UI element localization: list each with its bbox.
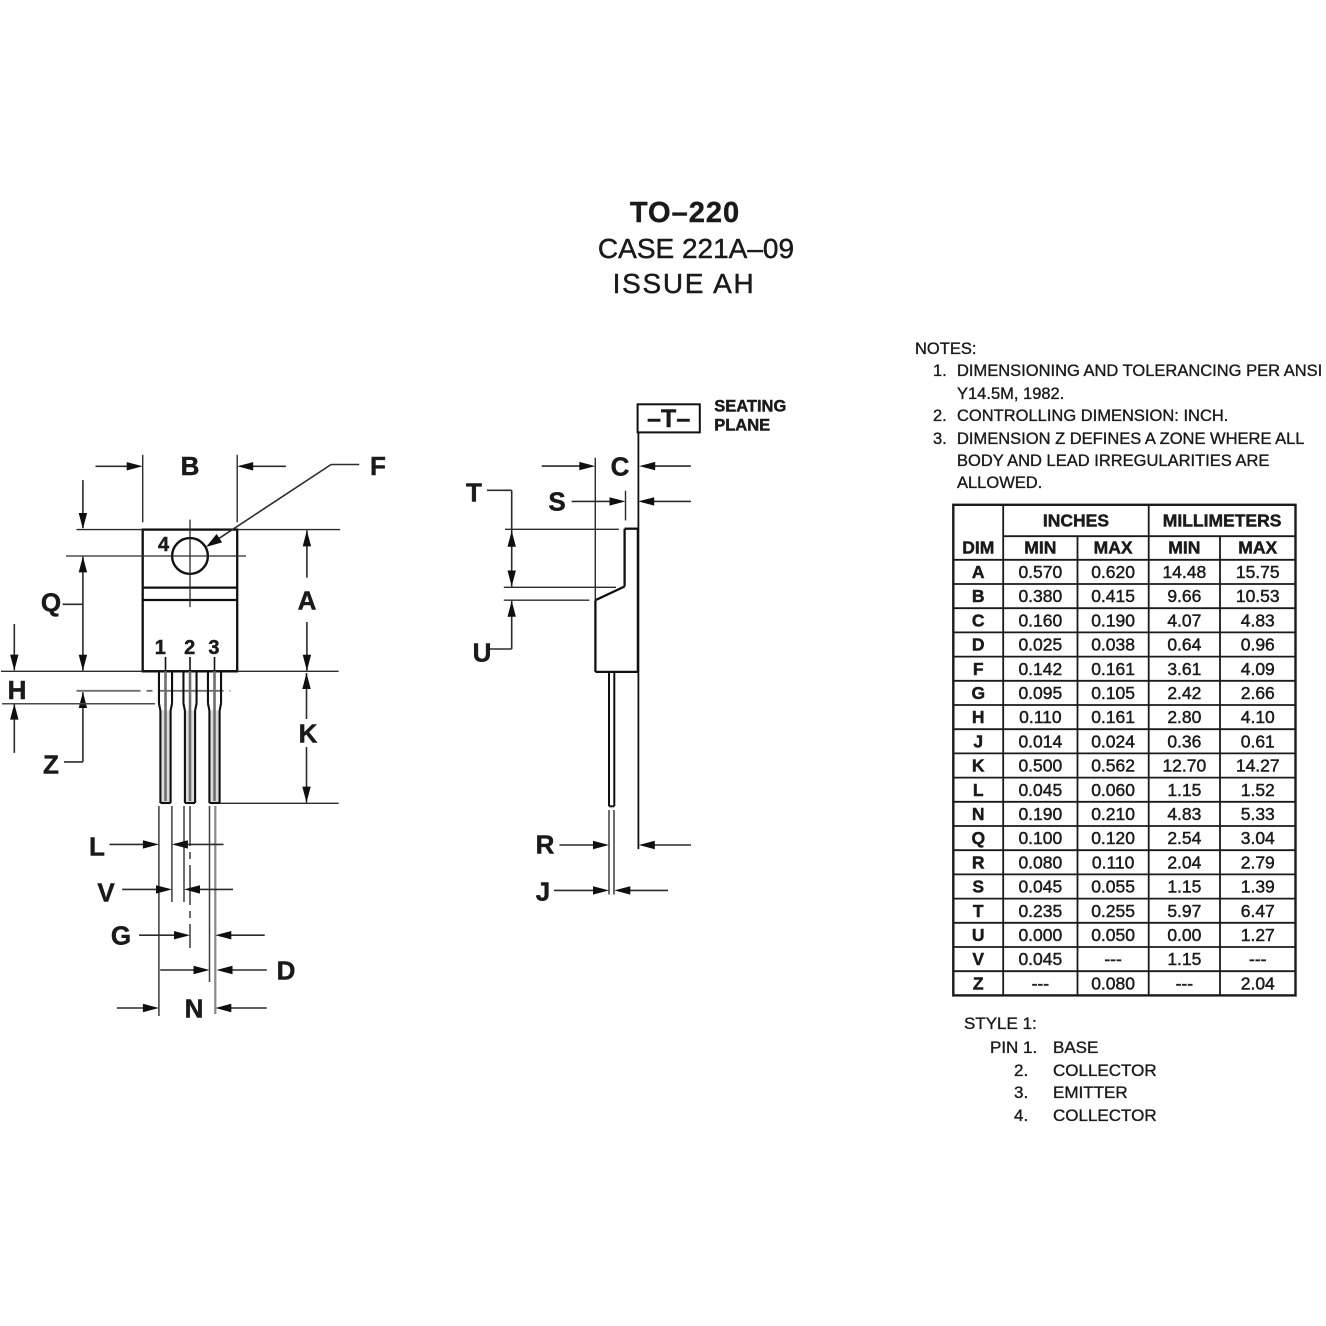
svg-text:4.09: 4.09 — [1241, 659, 1275, 679]
pin 2 stub — [189, 657, 191, 671]
dim F arrowhead — [206, 534, 222, 547]
svg-text:G: G — [971, 683, 985, 703]
svg-text:14.48: 14.48 — [1162, 562, 1206, 582]
dim S arrow line left — [572, 500, 611, 502]
svg-text:A: A — [972, 562, 985, 582]
dim K arrowhead down — [302, 787, 310, 803]
dim B arrowhead right — [237, 462, 253, 470]
side lead right edge — [613, 672, 615, 806]
chamfer bottom reference line — [504, 599, 590, 601]
lead 2 wide section left edge — [182, 671, 184, 703]
dim S arrowhead right — [638, 497, 654, 505]
dim S arrowhead left — [610, 497, 626, 505]
svg-text:3: 3 — [208, 637, 219, 659]
dim R arrowhead left — [593, 841, 609, 849]
svg-text:N: N — [185, 994, 204, 1024]
dim C arrowhead left — [579, 462, 595, 470]
svg-text:5.33: 5.33 — [1241, 804, 1275, 824]
svg-text:S: S — [972, 877, 984, 897]
dim K arrowhead up — [302, 673, 310, 689]
dim Z arrowhead — [79, 692, 87, 708]
svg-text:C: C — [611, 452, 630, 482]
svg-text:2.79: 2.79 — [1241, 852, 1275, 872]
svg-text:1.15: 1.15 — [1167, 949, 1201, 969]
svg-text:0.620: 0.620 — [1091, 562, 1135, 582]
svg-text:K: K — [972, 756, 985, 776]
svg-text:2.42: 2.42 — [1167, 683, 1201, 703]
svg-text:L: L — [89, 832, 105, 862]
dim S extension line — [625, 491, 627, 521]
svg-text:4.07: 4.07 — [1167, 610, 1201, 630]
svg-text:6.47: 6.47 — [1241, 901, 1275, 921]
svg-text:CASE 221A–09: CASE 221A–09 — [598, 233, 794, 264]
lead 1 bottom — [160, 802, 170, 804]
dim T connector — [487, 489, 512, 491]
svg-text:H: H — [972, 707, 985, 727]
svg-text:F: F — [973, 659, 984, 679]
side lead left edge — [608, 672, 610, 806]
extension line pin3 left edge — [209, 806, 211, 982]
svg-text:10.53: 10.53 — [1236, 586, 1280, 606]
hole center line horizontal — [66, 555, 246, 557]
svg-text:S: S — [548, 487, 565, 517]
dim H upper arrowhead — [10, 655, 18, 671]
svg-text:0.36: 0.36 — [1167, 731, 1201, 751]
extension line pin1 left edge — [158, 806, 160, 1016]
dim G arrowhead right — [215, 931, 231, 939]
dim H upper arrow line — [13, 624, 15, 670]
dim G arrowhead left — [174, 931, 190, 939]
dim Q lower line — [82, 557, 84, 671]
svg-text:0.96: 0.96 — [1241, 635, 1275, 655]
pin 1 stub — [165, 657, 167, 671]
dim L arrow line left — [110, 843, 146, 845]
svg-text:0.235: 0.235 — [1018, 901, 1062, 921]
dim Q arrowhead down at body bottom — [79, 655, 87, 671]
lead 3 bottom — [209, 802, 219, 804]
side body front upper edge — [623, 529, 625, 587]
svg-text:12.70: 12.70 — [1162, 756, 1206, 776]
svg-text:0.160: 0.160 — [1018, 610, 1062, 630]
dim C extension line — [594, 458, 596, 600]
svg-text:0.161: 0.161 — [1091, 707, 1135, 727]
dim J arrowhead right — [614, 886, 630, 894]
svg-text:2.80: 2.80 — [1167, 707, 1201, 727]
dim F leader diagonal — [209, 465, 332, 546]
side body top reference line — [505, 528, 619, 530]
svg-text:2.04: 2.04 — [1167, 852, 1201, 872]
extension line pin1 right edge — [171, 806, 173, 902]
lead taper reference line — [2, 703, 155, 705]
dim U connector — [489, 648, 512, 650]
side body front lower edge — [594, 600, 596, 672]
svg-text:2.66: 2.66 — [1241, 683, 1275, 703]
svg-text:DIM: DIM — [962, 538, 994, 558]
svg-text:SEATING: SEATING — [714, 398, 786, 416]
side body chamfer — [595, 587, 624, 601]
svg-text:0.110: 0.110 — [1019, 707, 1062, 727]
svg-text:---: --- — [1249, 949, 1267, 969]
svg-text:4: 4 — [158, 534, 170, 556]
svg-text:D: D — [972, 635, 985, 655]
dim Z arrow line — [82, 692, 84, 762]
dim N arrow line left — [117, 1007, 144, 1009]
svg-text:Q: Q — [971, 828, 985, 848]
dim D arrow line left — [160, 969, 195, 971]
svg-text:0.080: 0.080 — [1018, 852, 1062, 872]
svg-text:INCHES: INCHES — [1043, 511, 1109, 531]
dim Q upper arrow line — [82, 480, 84, 528]
lead 3 wide section right edge — [220, 671, 222, 703]
svg-text:MAX: MAX — [1238, 538, 1277, 558]
dim B arrow line left — [96, 465, 130, 467]
lead 1 narrow section edges — [159, 711, 161, 804]
extension line pin2 center dash-dot — [189, 806, 191, 948]
svg-text:0.00: 0.00 — [1167, 925, 1201, 945]
svg-text:MIN: MIN — [1168, 538, 1200, 558]
svg-text:1.52: 1.52 — [1241, 780, 1275, 800]
dim T arrowhead down — [508, 571, 516, 587]
dim A arrow line lower — [306, 622, 308, 671]
dim U arrow line — [511, 601, 513, 649]
dim V arrow line left — [122, 888, 158, 890]
svg-text:U: U — [473, 638, 492, 668]
dim R arrowhead right — [639, 841, 655, 849]
svg-text:PLANE: PLANE — [714, 417, 770, 435]
front view tab line lower — [143, 599, 238, 601]
lead 1 center line — [164, 671, 167, 801]
svg-text:0.210: 0.210 — [1091, 804, 1135, 824]
side body bottom edge — [595, 671, 638, 673]
lead 2 taper — [183, 704, 184, 711]
svg-text:D: D — [277, 956, 296, 986]
lead 3 wide section left edge — [207, 671, 209, 703]
svg-text:0.110: 0.110 — [1092, 852, 1135, 872]
svg-text:5.97: 5.97 — [1167, 901, 1201, 921]
svg-text:1: 1 — [155, 637, 166, 659]
svg-text:T: T — [973, 901, 984, 921]
svg-text:Z: Z — [973, 973, 984, 993]
svg-text:0.038: 0.038 — [1091, 635, 1135, 655]
svg-text:TO–220: TO–220 — [630, 197, 740, 229]
svg-text:K: K — [299, 719, 318, 749]
dim A arrowhead up — [303, 530, 311, 546]
dim H lower arrowhead — [10, 704, 18, 720]
dim B extension line right — [236, 455, 238, 523]
body top extension left — [77, 529, 143, 531]
zone boundary dash-dot line — [77, 690, 231, 692]
lead 3 center line — [213, 671, 216, 801]
dim R arrow line left — [559, 844, 595, 846]
style 1 pin listing — [964, 1013, 1037, 1036]
svg-text:9.66: 9.66 — [1167, 586, 1201, 606]
front view tab line upper — [143, 586, 238, 588]
side body tab top edge — [625, 528, 638, 530]
svg-text:0.060: 0.060 — [1091, 780, 1135, 800]
dim D arrowhead right — [217, 966, 233, 974]
dim V arrowhead right — [184, 885, 200, 893]
svg-text:B: B — [181, 451, 200, 481]
seating plane vertical line — [637, 433, 639, 849]
svg-text:B: B — [972, 586, 985, 606]
dim S arrow line right — [652, 500, 691, 502]
svg-text:0.045: 0.045 — [1018, 780, 1062, 800]
dim T arrow line — [511, 490, 513, 586]
svg-text:3.04: 3.04 — [1241, 828, 1275, 848]
dim N arrowhead left — [143, 1004, 159, 1012]
dim V arrowhead left — [156, 885, 172, 893]
dim D arrow line right — [230, 969, 267, 971]
dim V arrow line right — [197, 888, 233, 890]
dim B arrowhead left — [127, 462, 143, 470]
lead 1 wide section left edge — [158, 671, 160, 703]
lead 1 wide section right edge — [171, 671, 173, 703]
svg-text:MAX: MAX — [1094, 538, 1133, 558]
svg-text:F: F — [370, 451, 386, 481]
lead 3 taper — [208, 704, 209, 711]
dim Z connector — [64, 761, 83, 763]
svg-text:0.255: 0.255 — [1091, 901, 1135, 921]
svg-text:–T–: –T– — [647, 405, 690, 433]
dim J arrowhead left — [593, 886, 609, 894]
svg-text:2.54: 2.54 — [1167, 828, 1201, 848]
svg-text:0.190: 0.190 — [1091, 610, 1135, 630]
side lead bottom — [609, 805, 614, 807]
dim R arrow line right — [652, 844, 691, 846]
svg-text:1.15: 1.15 — [1167, 780, 1201, 800]
side body right edge — [637, 529, 639, 672]
lead 1 taper — [159, 704, 160, 711]
svg-text:0.025: 0.025 — [1018, 635, 1062, 655]
svg-text:0.500: 0.500 — [1018, 756, 1062, 776]
lead 2 bottom — [185, 802, 195, 804]
svg-text:0.080: 0.080 — [1091, 973, 1135, 993]
svg-text:0.380: 0.380 — [1018, 586, 1062, 606]
dim F leader horizontal — [331, 464, 359, 466]
dim D arrowhead left — [194, 966, 210, 974]
svg-text:J: J — [973, 731, 983, 751]
dim A arrowhead down — [303, 655, 311, 671]
dim B extension line left — [142, 455, 144, 523]
svg-text:---: --- — [1032, 973, 1050, 993]
svg-text:0.64: 0.64 — [1167, 635, 1201, 655]
svg-text:U: U — [972, 925, 985, 945]
svg-text:A: A — [298, 586, 317, 616]
svg-text:4.83: 4.83 — [1241, 610, 1275, 630]
dim T arrowhead up — [508, 531, 516, 547]
dim C arrow line left — [542, 465, 581, 467]
svg-text:3.61: 3.61 — [1167, 659, 1201, 679]
svg-text:---: --- — [1176, 973, 1194, 993]
svg-text:0.105: 0.105 — [1091, 683, 1135, 703]
svg-text:4.83: 4.83 — [1167, 804, 1201, 824]
body bottom edge — [143, 670, 238, 672]
svg-text:H: H — [8, 675, 27, 705]
chamfer top reference line — [504, 586, 616, 588]
pin 3 stub — [214, 657, 216, 671]
lead end reference line — [218, 802, 339, 804]
svg-text:1.39: 1.39 — [1241, 877, 1275, 897]
svg-text:0.562: 0.562 — [1091, 756, 1135, 776]
dim N arrowhead right — [215, 1004, 231, 1012]
svg-text:J: J — [536, 877, 550, 907]
svg-text:Q: Q — [41, 588, 61, 618]
front view body outline — [143, 530, 238, 672]
dim Q upper arrowhead — [79, 513, 87, 529]
svg-text:0.095: 0.095 — [1018, 683, 1062, 703]
mounting hole circle — [172, 538, 208, 574]
lead 2 wide section right edge — [196, 671, 198, 703]
dimension table — [953, 505, 1295, 996]
dim G arrow line right — [228, 934, 265, 936]
dim K arrow line upper — [306, 673, 308, 719]
dim K arrow line lower — [306, 747, 308, 803]
body top extension right — [237, 529, 340, 531]
svg-text:0.000: 0.000 — [1018, 925, 1062, 945]
svg-text:0.055: 0.055 — [1091, 877, 1135, 897]
svg-text:L: L — [973, 780, 984, 800]
svg-text:MILLIMETERS: MILLIMETERS — [1163, 511, 1282, 531]
svg-text:V: V — [972, 949, 984, 969]
svg-text:4.10: 4.10 — [1241, 707, 1275, 727]
svg-text:C: C — [972, 610, 985, 630]
extension line pin2 left edge — [183, 806, 185, 902]
svg-text:0.100: 0.100 — [1018, 828, 1062, 848]
svg-text:G: G — [111, 921, 131, 951]
svg-text:0.61: 0.61 — [1241, 731, 1275, 751]
svg-text:0.024: 0.024 — [1091, 731, 1135, 751]
dim L arrowhead left — [143, 840, 159, 848]
side lead extension line left — [608, 810, 610, 895]
svg-text:Z: Z — [43, 750, 59, 780]
svg-text:R: R — [972, 852, 985, 872]
side lead extension line right — [613, 810, 615, 895]
svg-text:0.014: 0.014 — [1018, 731, 1062, 751]
svg-text:T: T — [466, 478, 482, 508]
dim N arrow line right — [229, 1007, 267, 1009]
svg-text:0.570: 0.570 — [1018, 562, 1062, 582]
svg-text:15.75: 15.75 — [1236, 562, 1280, 582]
dim H lower arrow line — [13, 704, 15, 753]
svg-text:1.27: 1.27 — [1241, 925, 1275, 945]
svg-text:0.161: 0.161 — [1091, 659, 1135, 679]
dim B arrow line right — [251, 465, 286, 467]
svg-text:ISSUE AH: ISSUE AH — [613, 268, 756, 299]
svg-text:---: --- — [1104, 949, 1122, 969]
svg-text:V: V — [97, 878, 115, 908]
dim C arrow line right — [652, 465, 691, 467]
svg-text:MIN: MIN — [1024, 538, 1056, 558]
svg-text:2: 2 — [184, 637, 195, 659]
body bottom extension line — [1, 670, 339, 672]
lead 1 narrow section fill — [160, 711, 170, 804]
svg-text:0.142: 0.142 — [1018, 659, 1062, 679]
seating plane box — [638, 404, 700, 432]
lead 3 narrow section fill — [209, 711, 219, 804]
svg-text:R: R — [536, 830, 555, 860]
svg-text:0.190: 0.190 — [1018, 804, 1062, 824]
lead 2 narrow section fill — [185, 711, 195, 804]
lead 2 center line — [189, 671, 192, 801]
dim U arrowhead up — [508, 601, 516, 617]
hole crosshair vertical — [189, 520, 191, 608]
dim Q connector — [63, 603, 83, 605]
dim Q lower arrowhead up — [79, 556, 87, 572]
svg-text:2.04: 2.04 — [1241, 973, 1275, 993]
dim A arrow line upper — [306, 530, 308, 577]
notes block — [915, 338, 976, 360]
dim C arrowhead right — [639, 462, 655, 470]
svg-text:1.15: 1.15 — [1167, 877, 1201, 897]
dim L arrowhead right — [172, 840, 188, 848]
svg-text:N: N — [972, 804, 985, 824]
dim G arrow line left — [139, 934, 176, 936]
svg-text:0.045: 0.045 — [1018, 949, 1062, 969]
extension line pin3 center — [214, 806, 216, 1014]
dim L arrow line right — [185, 843, 224, 845]
svg-text:0.045: 0.045 — [1018, 877, 1062, 897]
svg-text:14.27: 14.27 — [1236, 756, 1280, 776]
dim J arrow line right — [630, 889, 668, 891]
svg-text:0.050: 0.050 — [1091, 925, 1135, 945]
dim J arrow line left — [554, 889, 594, 891]
lead 3 narrow section edges — [208, 711, 210, 804]
svg-text:0.415: 0.415 — [1091, 586, 1135, 606]
svg-text:0.120: 0.120 — [1091, 828, 1135, 848]
lead 2 narrow section edges — [184, 711, 186, 804]
